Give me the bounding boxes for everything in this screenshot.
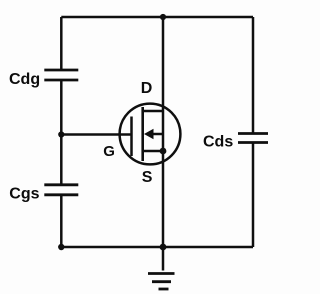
svg-text:D: D bbox=[141, 80, 153, 97]
wire right lower (Cds to bottom) bbox=[252, 143, 255, 248]
MOSFET source tap bbox=[143, 150, 163, 153]
MOSFET body arrow (points to channel) bbox=[144, 129, 163, 139]
wire left middle (Cdg to Cgs, gate node) bbox=[60, 80, 63, 185]
MOSFET drain tap bbox=[143, 110, 163, 113]
wire gate (to MOSFET gate) bbox=[61, 133, 131, 136]
capacitor Cdg bbox=[44, 70, 78, 80]
wire center vertical (drain-source lead) bbox=[162, 17, 165, 271]
ground bbox=[148, 274, 175, 290]
MOSFET gate plate bbox=[130, 117, 133, 157]
wire right upper (to Cds) bbox=[252, 17, 255, 134]
svg-text:G: G bbox=[103, 143, 115, 160]
MOSFET body circle bbox=[120, 104, 181, 165]
svg-text:Cds: Cds bbox=[203, 133, 233, 150]
wire bottom (source/ground net) bbox=[61, 246, 253, 249]
capacitor Cgs bbox=[44, 185, 78, 195]
wire top (drain node to Cds branch) bbox=[61, 16, 253, 19]
svg-text:Cgs: Cgs bbox=[9, 186, 39, 203]
svg-text:S: S bbox=[142, 169, 153, 186]
wire left upper (top to Cdg) bbox=[60, 17, 63, 70]
junction: gate node left bbox=[58, 131, 64, 137]
junction: source-body dot bbox=[160, 148, 167, 155]
wire left lower (Cgs to bottom) bbox=[60, 195, 63, 247]
junction: bottom-left corner bbox=[58, 244, 64, 250]
svg-text:Cdg: Cdg bbox=[9, 71, 40, 88]
junction: bottom source node bbox=[160, 244, 167, 251]
MOSFET channel bar bbox=[141, 107, 144, 161]
junction: top drain node bbox=[160, 14, 166, 20]
capacitor Cds bbox=[238, 134, 268, 143]
